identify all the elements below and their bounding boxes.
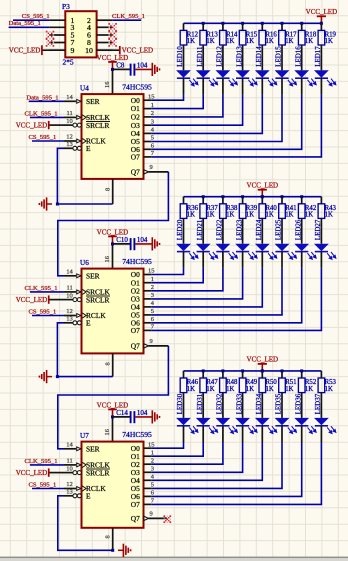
svg-text:E: E — [86, 491, 91, 500]
wire rail to resistor R50 — [261, 371, 263, 378]
U6 pin 5 (O5) stub — [144, 314, 152, 316]
U4 pin 15 (O0) stub — [144, 99, 152, 101]
LED LED22 cathode stub — [222, 252, 224, 268]
junction on rail at column 7 — [300, 195, 303, 198]
wire resistor R53 to LED LED37 — [320, 393, 322, 418]
junction on rail at column 2 — [202, 22, 205, 25]
VCC_LED rail — [184, 196, 322, 198]
resistor R53 — [318, 378, 325, 393]
svg-text:SER: SER — [86, 97, 100, 106]
LED LED22 — [216, 244, 231, 251]
wire LED LED27 to O7 — [151, 268, 321, 331]
LED LED31 — [196, 418, 211, 425]
svg-text:11: 11 — [67, 110, 73, 117]
svg-text:2: 2 — [151, 110, 154, 117]
LED LED21 cathode stub — [202, 252, 204, 268]
wire U4 E pin to ground — [57, 148, 112, 204]
LED LED30 — [176, 418, 191, 425]
U6 pin 10 (SRCLR) stub with bubble — [64, 299, 73, 301]
svg-text:LED35: LED35 — [275, 393, 283, 414]
svg-text:13: 13 — [66, 316, 73, 323]
svg-text:1K: 1K — [187, 212, 195, 219]
svg-text:74HC595: 74HC595 — [122, 257, 152, 266]
U6 pin 7 (O7) stub — [144, 329, 152, 331]
wire LED LED15 to O5 — [151, 94, 282, 141]
U4 pin 10 (SRCLR) stub with bubble — [64, 124, 73, 126]
svg-text:SER: SER — [86, 444, 100, 453]
junction on rail at column 6 — [281, 195, 284, 198]
LED LED35 — [275, 418, 290, 425]
wire resistor R47 to LED LED31 — [202, 393, 204, 418]
wire resistor R43 to LED LED27 — [320, 218, 322, 243]
wire Data_595_1 to U4 pin 14 — [29, 100, 64, 102]
LED LED27 — [314, 244, 329, 251]
U4 pin 9 (Q7) stub — [144, 170, 149, 174]
svg-text:2*5: 2*5 — [63, 57, 74, 66]
svg-text:1: 1 — [151, 102, 154, 109]
sheet bottom edge — [0, 557, 348, 559]
svg-text:LED23: LED23 — [235, 219, 243, 240]
svg-text:LED30: LED30 — [176, 393, 184, 414]
svg-text:Q7: Q7 — [131, 514, 140, 523]
wire rail to resistor R19 — [320, 23, 322, 30]
capacitor C10 — [130, 238, 132, 250]
U7 pin 6 (O6) stub — [144, 495, 152, 497]
P3 pin 1 stub — [49, 19, 65, 21]
svg-text:U7: U7 — [80, 432, 89, 440]
no-connect X on U7 Q7 — [163, 515, 165, 517]
P3 pin 6 stub — [97, 34, 113, 36]
svg-text:LED13: LED13 — [235, 46, 243, 67]
VCC_LED rail — [184, 370, 322, 372]
svg-text:10: 10 — [85, 46, 93, 55]
power port VCC_LED of LED bank — [258, 363, 267, 365]
wire Data_595_1 to P3 pin 3 — [9, 26, 50, 28]
wire VCC junction to capacitor C10 — [113, 243, 130, 245]
wire CLK_595_1 to U7 pin 11 — [30, 464, 64, 466]
svg-text:1K: 1K — [187, 386, 195, 393]
no-connect X on P3 pin 4 — [108, 23, 110, 25]
svg-text:1K: 1K — [285, 212, 293, 219]
wire rail to resistor R18 — [301, 23, 303, 30]
power port VCC_LED at P3 pin 9 — [42, 49, 65, 51]
wire rail to resistor R37 — [202, 197, 204, 204]
svg-text:1K: 1K — [187, 38, 195, 45]
svg-text:9: 9 — [150, 164, 153, 171]
junction at VCC stem — [261, 195, 264, 198]
junction on rail at column 4 — [241, 369, 244, 372]
junction on rail at column 2 — [202, 369, 205, 372]
wire LED LED21 to O1 — [151, 268, 203, 283]
shift register U7 body — [82, 442, 144, 528]
ground at U4 pin 8 / E — [47, 203, 52, 205]
svg-text:E: E — [86, 144, 91, 153]
U4 pin 4 (O4) stub — [144, 132, 152, 134]
wire resistor R51 to LED LED35 — [281, 393, 283, 418]
resistor R47 — [200, 378, 207, 393]
wire resistor R46 to LED LED30 — [183, 393, 185, 418]
svg-text:10: 10 — [66, 292, 73, 299]
U6 pin 12 (RCLK) stub — [64, 315, 76, 317]
resistor R36 — [180, 204, 187, 219]
svg-text:CLK_595_1: CLK_595_1 — [25, 458, 58, 465]
no-connect X on P3 pin 6 — [108, 31, 110, 33]
svg-text:1K: 1K — [266, 386, 274, 393]
svg-text:CLK_595_1: CLK_595_1 — [25, 285, 58, 292]
wire CLK_595_1 to U6 pin 11 — [30, 291, 64, 293]
U7 pin 8 (GND) wire — [112, 528, 114, 551]
LED LED13 cathode stub — [242, 78, 244, 94]
LED LED31 cathode stub — [202, 426, 204, 442]
junction on rail at column 3 — [221, 22, 224, 25]
P3 pin 3 stub — [49, 26, 65, 28]
svg-text:3: 3 — [151, 466, 154, 473]
U4 pin 2 (O2) stub — [144, 116, 152, 118]
shift register U4 body — [82, 94, 144, 179]
no-connect X on P3 pin 8 — [108, 38, 110, 40]
svg-text:P3: P3 — [62, 2, 70, 11]
svg-text:1K: 1K — [285, 38, 293, 45]
junction at U7 ground — [111, 549, 114, 552]
svg-text:VCC_LED: VCC_LED — [16, 296, 48, 304]
U6 pin 11 (SRCLK) stub — [64, 291, 76, 293]
svg-text:LED10: LED10 — [176, 46, 184, 67]
wire rail to resistor R15 — [242, 23, 244, 30]
LED LED23 cathode stub — [242, 252, 244, 268]
U6 pin 15 (O0) stub — [144, 274, 152, 276]
LED LED34 cathode stub — [261, 426, 263, 442]
svg-text:CS_595_1: CS_595_1 — [28, 309, 56, 316]
svg-text:SER: SER — [86, 271, 100, 280]
wire rail to resistor R13 — [202, 23, 204, 30]
junction on rail at column 4 — [241, 22, 244, 25]
svg-text:5: 5 — [151, 482, 154, 489]
junction at VCC stem — [261, 369, 264, 372]
LED LED11 — [196, 70, 211, 77]
svg-text:U6: U6 — [80, 259, 89, 267]
junction on rail at column 5 — [261, 369, 264, 372]
svg-text:1: 1 — [151, 449, 154, 456]
capacitor C8 — [130, 64, 132, 76]
svg-text:1K: 1K — [226, 212, 234, 219]
wire rail to resistor R38 — [222, 197, 224, 204]
U6 pin 1 (O1) stub — [144, 282, 152, 284]
ground at capacitor C8 — [151, 63, 153, 76]
power port VCC_LED at U6 pin 10 — [49, 299, 64, 301]
wire CS_595_1 to U7 pin 12 — [32, 488, 64, 490]
svg-text:SRCLR: SRCLR — [86, 295, 109, 304]
U4 pin 6 (O6) stub — [144, 148, 152, 150]
resistor R43 — [318, 204, 325, 219]
resistor R13 — [200, 30, 207, 45]
wire LED LED13 to O3 — [151, 94, 242, 125]
svg-text:LED37: LED37 — [314, 393, 322, 414]
U4 pin 12 (RCLK) stub — [64, 140, 76, 142]
LED LED10 cathode stub — [183, 78, 185, 94]
LED LED17 — [314, 70, 329, 77]
wire LED LED23 to O3 — [151, 268, 242, 299]
wire P3 pin 2 to CLK_595_1 — [112, 19, 141, 21]
ground at capacitor C14 — [151, 410, 153, 423]
svg-text:1K: 1K — [226, 38, 234, 45]
resistor R49 — [239, 378, 246, 393]
wire rail to resistor R53 — [320, 371, 322, 378]
svg-text:SRCLR: SRCLR — [86, 121, 109, 130]
svg-text:CS_595_1: CS_595_1 — [28, 482, 56, 489]
LED LED24 cathode stub — [261, 252, 263, 268]
svg-text:104: 104 — [137, 61, 148, 69]
wire LED LED32 to O2 — [151, 442, 223, 464]
LED LED36 — [294, 418, 309, 425]
svg-text:VCC_LED: VCC_LED — [247, 182, 279, 190]
svg-text:14: 14 — [66, 442, 73, 449]
U4 pin 13 (E) stub with bubble — [64, 147, 73, 149]
resistor R52 — [298, 378, 305, 393]
svg-text:LED26: LED26 — [294, 219, 302, 240]
LED LED26 cathode stub — [301, 252, 303, 268]
LED LED16 cathode stub — [301, 78, 303, 94]
wire resistor R18 to LED LED16 — [301, 45, 303, 70]
LED LED16 — [294, 70, 309, 77]
LED LED37 — [314, 418, 329, 425]
svg-text:1K: 1K — [305, 386, 313, 393]
U7 pin 3 (O3) stub — [144, 471, 152, 473]
wire resistor R19 to LED LED17 — [320, 45, 322, 70]
svg-text:LED34: LED34 — [255, 393, 263, 414]
U7 pin 10 (SRCLR) stub with bubble — [64, 472, 73, 474]
wire resistor R37 to LED LED21 — [202, 218, 204, 243]
ground at U7 pin 8 / E — [118, 549, 123, 551]
U7 pin 12 (RCLK) stub — [64, 488, 76, 490]
wire LED LED30 to O0 — [151, 442, 183, 448]
resistor R37 — [200, 204, 207, 219]
svg-text:1K: 1K — [246, 386, 254, 393]
wire rail to resistor R41 — [281, 197, 283, 204]
svg-text:1K: 1K — [206, 212, 214, 219]
LED LED12 — [216, 70, 231, 77]
svg-text:LED27: LED27 — [314, 219, 322, 240]
svg-text:LED25: LED25 — [275, 219, 283, 240]
wire U7 Q7 unconnected — [149, 517, 167, 519]
P3 pin 7 stub — [49, 42, 65, 44]
svg-text:O7: O7 — [131, 153, 140, 162]
U4 pin 3 (O3) stub — [144, 124, 152, 126]
junction on rail at column 4 — [241, 195, 244, 198]
LED LED27 cathode stub — [320, 252, 322, 268]
LED LED33 — [235, 418, 250, 425]
svg-text:1K: 1K — [226, 386, 234, 393]
U6 pin 9 (Q7) stub — [144, 344, 149, 348]
svg-text:3: 3 — [151, 292, 154, 299]
junction at VCC/cap tap of U7 — [111, 415, 114, 418]
svg-text:LED22: LED22 — [216, 219, 224, 240]
wire rail to resistor R51 — [281, 371, 283, 378]
LED LED32 cathode stub — [222, 426, 224, 442]
svg-text:Data_595_1: Data_595_1 — [26, 94, 58, 101]
resistor R18 — [298, 30, 305, 45]
wire LED LED35 to O5 — [151, 442, 282, 488]
resistor R15 — [239, 30, 246, 45]
wire resistor R40 to LED LED24 — [261, 218, 263, 243]
LED LED17 cathode stub — [320, 78, 322, 94]
svg-text:Q7: Q7 — [131, 168, 140, 177]
LED LED33 cathode stub — [242, 426, 244, 442]
U7 pin 14 (SER) stub — [64, 448, 76, 450]
ground at capacitor C10 — [151, 237, 153, 250]
svg-text:1: 1 — [151, 276, 154, 283]
U7 pin 2 (O2) stub — [144, 463, 152, 465]
svg-text:C8: C8 — [116, 61, 125, 69]
svg-text:11: 11 — [67, 458, 73, 465]
wire rail to resistor R14 — [222, 23, 224, 30]
resistor R48 — [220, 378, 227, 393]
U4 pin 1 (O1) stub — [144, 108, 152, 110]
U7 pin 9 (Q7) stub — [144, 516, 149, 520]
svg-text:1K: 1K — [266, 38, 274, 45]
U4 pin 5 (O5) stub — [144, 141, 152, 143]
wire LED LED17 to O7 — [151, 94, 321, 156]
svg-text:104: 104 — [137, 409, 148, 417]
svg-text:15: 15 — [148, 441, 155, 448]
U7 pin 5 (O5) stub — [144, 487, 152, 489]
LED LED15 — [275, 70, 290, 77]
LED LED37 cathode stub — [320, 426, 322, 442]
svg-text:CLK_595_1: CLK_595_1 — [25, 110, 58, 117]
svg-text:C10: C10 — [116, 236, 128, 244]
U7 pin 13 (E) stub with bubble — [64, 495, 73, 497]
junction on rail at column 3 — [221, 369, 224, 372]
LED LED12 cathode stub — [222, 78, 224, 94]
svg-text:13: 13 — [66, 489, 73, 496]
wire resistor R39 to LED LED23 — [242, 218, 244, 243]
wire CLK_595_1 to U4 pin 11 — [30, 116, 64, 118]
svg-text:VCC_LED: VCC_LED — [16, 122, 48, 130]
svg-text:10: 10 — [66, 465, 73, 472]
U6 pin 3 (O3) stub — [144, 298, 152, 300]
wire rail to resistor R40 — [261, 197, 263, 204]
capacitor C14 — [130, 411, 132, 423]
svg-text:Q7: Q7 — [131, 342, 140, 351]
svg-text:2: 2 — [151, 284, 154, 291]
wire resistor R15 to LED LED13 — [242, 45, 244, 70]
U7 pin 7 (O7) stub — [144, 503, 152, 505]
svg-text:LED24: LED24 — [255, 219, 263, 240]
wire rail to resistor R47 — [202, 371, 204, 378]
wire resistor R16 to LED LED14 — [261, 45, 263, 70]
svg-text:LED12: LED12 — [216, 46, 224, 67]
svg-text:1K: 1K — [325, 38, 333, 45]
wire rail to resistor R17 — [281, 23, 283, 30]
wire LED LED36 to O6 — [151, 442, 301, 496]
svg-text:LED21: LED21 — [196, 219, 204, 240]
svg-text:VCC_LED: VCC_LED — [247, 356, 279, 364]
wire CS_595_1 to U6 pin 12 — [32, 315, 64, 317]
U7 pin 11 (SRCLK) stub — [64, 464, 76, 466]
resistor R17 — [279, 30, 286, 45]
U6 pin 8 (GND) wire — [112, 353, 114, 376]
junction on rail at column 2 — [202, 195, 205, 198]
U6 pin 4 (O4) stub — [144, 306, 152, 308]
wire U6 Q7 cascade to next SER — [149, 345, 169, 347]
svg-text:VCC_LED: VCC_LED — [9, 47, 41, 55]
power port VCC_LED of LED bank — [258, 189, 267, 191]
P3 pin 5 stub — [49, 34, 65, 36]
svg-text:LED14: LED14 — [255, 46, 263, 67]
U7 pin 4 (O4) stub — [144, 479, 152, 481]
power port VCC_LED at U7 pin 10 — [49, 472, 64, 474]
wire resistor R12 to LED LED10 — [183, 45, 185, 70]
U6 pin 2 (O2) stub — [144, 290, 152, 292]
U6 pin 6 (O6) stub — [144, 322, 152, 324]
svg-text:74HC595: 74HC595 — [122, 83, 152, 92]
power port VCC_LED of LED bank — [317, 15, 326, 17]
resistor R19 — [318, 30, 325, 45]
wire LED LED24 to O4 — [151, 268, 262, 307]
junction on rail at column 6 — [281, 369, 284, 372]
svg-text:1K: 1K — [206, 386, 214, 393]
resistor R39 — [239, 204, 246, 219]
wire rail to resistor R42 — [301, 197, 303, 204]
wire rail to resistor R48 — [222, 371, 224, 378]
svg-text:1K: 1K — [305, 212, 313, 219]
junction on rail at column 5 — [261, 22, 264, 25]
svg-text:CS_595_1: CS_595_1 — [22, 13, 50, 20]
LED LED10 — [176, 70, 191, 77]
svg-text:LED33: LED33 — [235, 393, 243, 414]
svg-text:CLK_595_1: CLK_595_1 — [112, 13, 145, 20]
junction at VCC stem — [320, 22, 323, 25]
wire rail to resistor R16 — [261, 23, 263, 30]
VCC_LED rail — [184, 22, 322, 24]
svg-text:O7: O7 — [131, 326, 140, 335]
svg-text:LED15: LED15 — [275, 46, 283, 67]
wire capacitor C10 to ground — [135, 243, 152, 245]
LED LED32 — [216, 418, 231, 425]
wire rail to resistor R36 — [183, 197, 185, 204]
wire resistor R38 to LED LED22 — [222, 218, 224, 243]
svg-text:16: 16 — [104, 256, 111, 262]
junction at VCC/cap tap of U6 — [111, 242, 114, 245]
wire LED LED14 to O4 — [151, 94, 262, 133]
svg-text:10: 10 — [66, 118, 73, 125]
svg-text:5: 5 — [151, 308, 154, 315]
wire LED LED10 to O0 — [151, 94, 183, 100]
LED LED14 — [255, 70, 270, 77]
svg-text:1K: 1K — [266, 212, 274, 219]
svg-text:E: E — [86, 318, 91, 327]
svg-text:1K: 1K — [246, 212, 254, 219]
LED LED25 cathode stub — [281, 252, 283, 268]
LED LED13 — [235, 70, 250, 77]
svg-text:LED16: LED16 — [294, 46, 302, 67]
U7 pin 15 (O0) stub — [144, 447, 152, 449]
LED LED26 — [294, 244, 309, 251]
svg-text:13: 13 — [66, 141, 73, 148]
wire rail to resistor R43 — [320, 197, 322, 204]
svg-text:LED20: LED20 — [176, 219, 184, 240]
wire LED LED31 to O1 — [151, 442, 203, 456]
LED LED14 cathode stub — [261, 78, 263, 94]
wire LED LED22 to O2 — [151, 268, 223, 291]
P3 pin 9 stub — [49, 49, 65, 51]
U4 pin 11 (SRCLK) stub — [64, 116, 76, 118]
svg-text:2: 2 — [151, 457, 154, 464]
wire CS_595_1 to U4 pin 12 — [32, 140, 64, 142]
wire resistor R52 to LED LED36 — [301, 393, 303, 418]
junction on rail at column 7 — [300, 369, 303, 372]
no-connect X on P3 pin 7 — [46, 38, 48, 40]
svg-text:16: 16 — [104, 82, 111, 88]
